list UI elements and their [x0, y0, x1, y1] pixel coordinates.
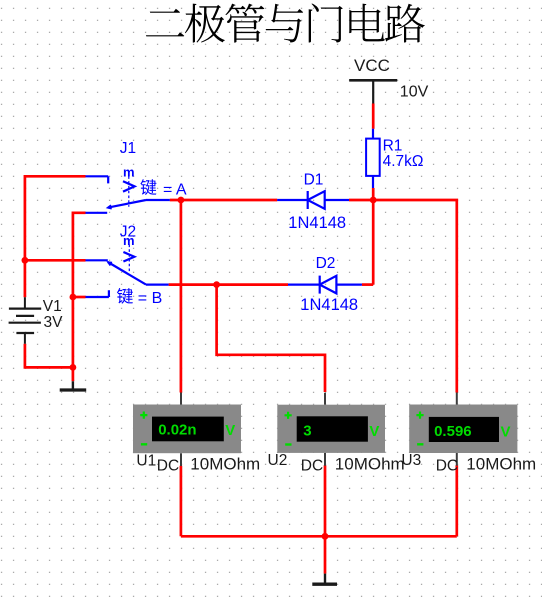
wire U2 to ground: [324, 465, 327, 573]
voltmeter U2: [324, 393, 326, 466]
svg-text:3: 3: [303, 423, 311, 440]
svg-text:VCC: VCC: [354, 56, 390, 75]
ground bottom: [324, 574, 326, 583]
wire node A to U1: [180, 200, 183, 393]
svg-text:D1: D1: [304, 171, 324, 188]
diode D1 1N4148: [277, 191, 349, 209]
svg-text:10MOhm: 10MOhm: [466, 455, 536, 474]
wire ground bus: [181, 535, 457, 538]
label 键 = A: [140, 179, 156, 195]
junction battery- corner: [70, 364, 77, 371]
resistor R1: [366, 129, 423, 188]
title 二极管与门电路: [146, 9, 184, 37]
wire rail to J2 bottom throw: [73, 296, 86, 299]
wire battery+ to J1 top throw: [25, 176, 86, 297]
switch J2: [86, 245, 169, 298]
node B junction: [213, 281, 220, 288]
diode D2 1N4148: [288, 276, 362, 294]
wire node B to U2: [217, 285, 325, 392]
svg-text:3V: 3V: [44, 314, 64, 331]
switch J1: [86, 172, 170, 213]
svg-text:D2: D2: [316, 255, 336, 272]
ground left: [72, 381, 74, 388]
svg-text:= A: = A: [163, 181, 187, 198]
svg-text:m: m: [123, 233, 135, 248]
svg-text:1N4148: 1N4148: [300, 296, 358, 314]
voltmeter U1: [180, 393, 182, 467]
wire J1 pole to ground rail: [73, 213, 86, 381]
wire node to J2 top throw: [25, 259, 86, 262]
svg-text:10MOhm: 10MOhm: [335, 455, 405, 474]
voltmeter U3: [456, 393, 458, 466]
svg-text:0.596: 0.596: [434, 423, 472, 440]
junction ground bus: [322, 533, 329, 540]
wire J1 output to D1: [170, 199, 277, 202]
junction rail / J2 bottom throw: [70, 294, 77, 301]
svg-text:DC: DC: [436, 458, 458, 475]
svg-text:1N4148: 1N4148: [288, 214, 346, 232]
svg-text:m: m: [123, 164, 135, 179]
wire D2 right to node: [362, 283, 373, 286]
svg-text:10MOhm: 10MOhm: [190, 455, 260, 474]
svg-text:U3: U3: [401, 452, 421, 469]
svg-text:10V: 10V: [400, 84, 429, 101]
battery V1 3V: [9, 297, 42, 344]
svg-text:DC: DC: [301, 458, 323, 475]
wire VCC to R1: [372, 104, 375, 129]
node A junction: [178, 197, 185, 204]
VCC power symbol: [349, 56, 397, 104]
svg-text:U2: U2: [268, 452, 288, 469]
wire U3 to bus: [455, 465, 458, 536]
label 键 = B: [117, 288, 133, 304]
svg-text:4.7kΩ: 4.7kΩ: [383, 153, 424, 170]
wire U1 to bus: [180, 466, 183, 537]
svg-text:V: V: [369, 423, 379, 440]
wire battery- to rail: [25, 344, 73, 368]
node output junction: [370, 197, 377, 204]
svg-text:= B: = B: [138, 290, 162, 307]
svg-text:0.02n: 0.02n: [158, 422, 196, 439]
svg-text:V: V: [501, 423, 511, 440]
svg-text:U1: U1: [136, 453, 156, 470]
svg-text:J1: J1: [120, 140, 136, 157]
svg-text:DC: DC: [157, 458, 179, 475]
wire J2 output to D2: [169, 283, 288, 286]
wire D1 to corner to U3: [349, 200, 457, 393]
svg-text:V1: V1: [43, 298, 62, 315]
svg-text:V: V: [225, 422, 235, 439]
wire R1 bottom to D2 node: [372, 188, 375, 285]
junction battery+ / J2 throw: [22, 257, 29, 264]
